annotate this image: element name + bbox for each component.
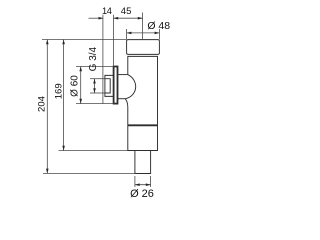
svg-text:Ø 26: Ø 26 — [130, 188, 154, 200]
svg-text:204: 204 — [37, 96, 48, 112]
svg-text:G 3/4: G 3/4 — [88, 46, 99, 71]
svg-text:Ø 60: Ø 60 — [70, 75, 81, 97]
svg-text:45: 45 — [121, 6, 132, 17]
svg-text:Ø 48: Ø 48 — [147, 20, 170, 32]
svg-text:14: 14 — [102, 6, 112, 16]
svg-text:169: 169 — [54, 83, 65, 99]
